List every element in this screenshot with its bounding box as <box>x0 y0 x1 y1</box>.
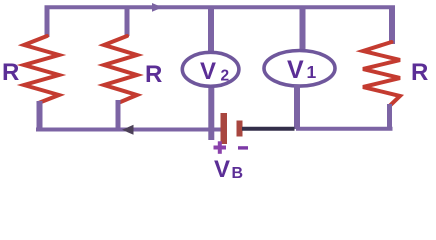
voltmeter V2 <box>182 52 239 86</box>
arrow current direction on bottom bus <box>122 125 134 135</box>
battery VB negative plate <box>237 121 243 137</box>
label R of resistor R2 <box>145 61 162 88</box>
wire bottom lead of voltmeter V2 <box>208 85 214 140</box>
svg-text:V: V <box>200 58 216 85</box>
svg-text:R: R <box>145 61 162 88</box>
wire top lead of resistor R1 <box>45 6 50 38</box>
label VB of battery VB <box>214 156 243 183</box>
svg-text:R: R <box>2 59 19 86</box>
wire bottom lead of resistor R1 <box>37 101 43 131</box>
wire bottom lead of resistor R3 <box>387 104 392 130</box>
resistor R3 <box>363 42 400 106</box>
svg-text:B: B <box>232 165 244 182</box>
label R of resistor R1 <box>2 59 19 86</box>
wire top lead of voltmeter V2 <box>208 6 214 55</box>
svg-text:V: V <box>287 56 304 84</box>
label V2 of voltmeter V2 <box>200 58 229 85</box>
wire top bus <box>45 5 396 9</box>
label minus sign of battery VB <box>238 146 248 149</box>
resistor R2 <box>104 36 137 103</box>
wire top lead of resistor R3 <box>389 6 395 45</box>
arrow current direction on top bus <box>152 3 163 12</box>
svg-text:V: V <box>214 156 230 183</box>
label V1 of voltmeter V1 <box>287 56 317 84</box>
resistor R1 <box>24 36 59 103</box>
wire top lead of voltmeter V1 <box>300 6 306 54</box>
svg-text:R: R <box>411 59 428 86</box>
label R of resistor R3 <box>411 59 428 86</box>
wire bottom lead of voltmeter V1 <box>294 85 300 129</box>
label plus sign of battery VB <box>214 141 227 154</box>
wire bottom bus left of battery <box>36 128 222 132</box>
wire from battery negative plate (dark segment) <box>242 127 295 131</box>
wire top lead of resistor R2 <box>125 6 130 37</box>
svg-text:2: 2 <box>221 68 230 85</box>
svg-text:1: 1 <box>307 62 317 82</box>
wire bottom bus right of battery <box>296 127 393 131</box>
wire bottom lead of resistor R2 <box>116 100 121 131</box>
battery VB positive plate <box>221 113 228 144</box>
voltmeter V1 <box>264 51 335 87</box>
